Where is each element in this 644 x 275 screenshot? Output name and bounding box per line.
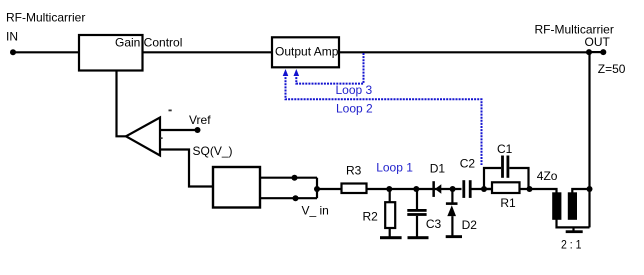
svg-text:4Zo: 4Zo [537, 169, 558, 183]
node OUT junction [587, 186, 593, 192]
wire to R3 [317, 188, 341, 190]
label minus mark at op-amp inverting input [160, 137, 162, 139]
svg-text:Loop 2: Loop 2 [336, 102, 373, 116]
label minus mark above op-amp [169, 110, 172, 112]
loop 3 dotted feedback path [296, 53, 363, 84]
resistor R1 [492, 182, 520, 193]
wire junction up to C1 [484, 168, 501, 189]
ground below C3 [408, 236, 429, 239]
svg-text:RF-Multicarrier: RF-Multicarrier [6, 11, 85, 25]
node C2-R1 junction [481, 186, 487, 192]
node C3 junction [413, 186, 419, 192]
loop 2 dotted feedback path [286, 74, 482, 165]
wire secondary to OUT node [572, 189, 589, 193]
svg-text:2 : 1: 2 : 1 [561, 237, 582, 251]
node R2 junction [386, 186, 392, 192]
svg-text:Output Amp: Output Amp [275, 45, 339, 59]
svg-text:D2: D2 [462, 218, 478, 232]
wire Vref input [160, 129, 198, 131]
wire C2 to R1 [471, 188, 492, 190]
ground below D2 [446, 235, 462, 238]
block Output Amp [272, 37, 339, 67]
wire op-amp input from squarer [160, 150, 212, 187]
wire OUT stub [589, 51, 603, 53]
wire Gain Control feedback down to comparator [117, 71, 127, 137]
node corner junction [586, 49, 592, 55]
resistor R3 [342, 184, 367, 194]
svg-text:C3: C3 [426, 217, 442, 231]
diode D1 [432, 181, 441, 197]
wire Gain Control to Output Amp [144, 51, 272, 53]
resistor R2 [385, 189, 395, 237]
capacitor C3 [407, 189, 426, 237]
wire squarer upper output [260, 177, 317, 179]
diode D2 [446, 189, 458, 236]
wire R1 leads [484, 188, 530, 190]
wire IN to Gain Control [13, 51, 79, 53]
transformer secondary winding [568, 192, 577, 220]
arrow Loop 2 into Output Amp [283, 69, 289, 76]
svg-text:IN: IN [6, 29, 18, 43]
arrow Loop 3 into Output Amp [294, 69, 300, 76]
svg-text:D1: D1 [430, 161, 446, 175]
wire joining outputs [316, 178, 318, 199]
svg-text:C2: C2 [460, 156, 476, 170]
svg-text:Loop 3: Loop 3 [336, 83, 373, 97]
capacitor C1 [501, 156, 509, 178]
wire Output Amp to OUT corner [340, 51, 590, 53]
svg-text:R1: R1 [500, 196, 516, 210]
svg-text:V_ in: V_ in [302, 204, 329, 218]
node D2 junction [450, 186, 456, 192]
node RF OUT terminal [600, 49, 606, 55]
node V_in junction [314, 186, 320, 192]
svg-text:SQ(V_): SQ(V_) [193, 144, 233, 158]
node IN terminal [10, 49, 16, 55]
block Gain Control [79, 35, 182, 71]
svg-text:Loop 1: Loop 1 [376, 160, 413, 174]
svg-text:Gain Control: Gain Control [115, 35, 182, 49]
transformer primary winding [552, 192, 561, 220]
wire C1 down to R1 output node [509, 168, 528, 189]
ground below R2 [380, 236, 402, 239]
wire squarer lower output [260, 197, 317, 199]
svg-text:R3: R3 [346, 164, 362, 178]
ground at transformer [566, 227, 583, 233]
wire OUT vertical down to transformer [588, 52, 590, 227]
svg-text:Vref: Vref [189, 113, 211, 127]
wire transformer bottom return [557, 220, 590, 228]
node Vref terminal [195, 127, 201, 133]
op-amp comparator [126, 118, 160, 156]
wire R3 to C2 [368, 188, 462, 190]
block squarer [213, 167, 260, 208]
node lower output junction [293, 195, 299, 201]
node R1 output junction [527, 186, 533, 192]
svg-text:OUT: OUT [585, 35, 611, 49]
capacitor C2 [462, 180, 471, 198]
node upper output junction [292, 175, 298, 181]
wire R1 to transformer primary [530, 189, 557, 193]
svg-text:C1: C1 [497, 142, 513, 156]
svg-text:R2: R2 [363, 210, 379, 224]
svg-text:Z=50: Z=50 [598, 62, 626, 76]
